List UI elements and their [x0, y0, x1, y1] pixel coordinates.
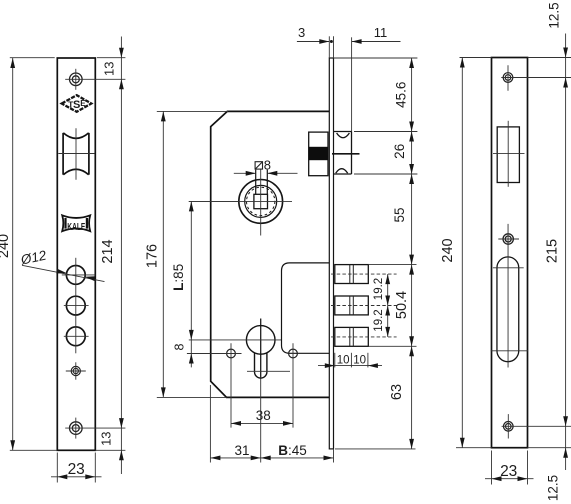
svg-text:38: 38 [256, 408, 271, 423]
follower centerlines [189, 169, 292, 463]
top screw hole [70, 73, 83, 86]
svg-text:240: 240 [440, 238, 456, 262]
svg-text:8: 8 [264, 157, 271, 172]
strike middle screw hole [503, 234, 513, 244]
svg-text:23: 23 [500, 463, 517, 480]
left body screw hole [227, 349, 236, 358]
mid screw hole [71, 366, 80, 375]
svg-text:19.2: 19.2 [373, 309, 385, 331]
svg-text:31: 31 [234, 443, 249, 458]
dimension 3 (faceplate thickness) [297, 36, 334, 58]
mid screw hole crosshair [66, 362, 86, 379]
follower shaft guide lines [256, 170, 268, 195]
dimension 8 [189, 354, 194, 364]
strike plate outline [492, 58, 528, 448]
cylinder horizontal centerline [189, 339, 282, 341]
svg-text:176: 176 [145, 244, 161, 268]
svg-text:3: 3 [298, 25, 305, 40]
bottom screw hole crosshair + ext [65, 418, 125, 439]
svg-text:240: 240 [0, 234, 12, 258]
internal line below cylinder [247, 370, 290, 372]
dimension 240 (left plate) [10, 58, 58, 451]
deadbolt slot (stadium) [497, 257, 519, 362]
svg-text:23: 23 [68, 461, 85, 478]
svg-text:45.6: 45.6 [394, 82, 409, 108]
pin internal verticals [350, 265, 354, 347]
svg-text:26: 26 [392, 144, 407, 159]
square-8 label [255, 157, 271, 172]
dimension 23 (left plate) [51, 453, 102, 483]
latch black band [309, 147, 328, 160]
right dimension chain extension lines [334, 58, 418, 449]
svg-text:13: 13 [101, 62, 116, 76]
strike screw bottom crosshair + ext [502, 414, 571, 438]
pin centerlines [331, 274, 397, 337]
svg-text:12.5: 12.5 [547, 2, 562, 28]
svg-text:10: 10 [353, 355, 366, 367]
dimension 11 (latch projection) [352, 37, 401, 131]
strike middle screw crosshair [498, 238, 519, 240]
deadbolt pin 3 [335, 327, 369, 346]
svg-text:12.5: 12.5 [546, 475, 561, 501]
latch window [497, 127, 519, 183]
dimension 19.2 chain [387, 274, 389, 337]
dimension 31 / B:45 [210, 385, 333, 463]
dimension L:85 [189, 201, 239, 367]
svg-text:B:45: B:45 [278, 443, 307, 458]
svg-text:8: 8 [173, 343, 187, 350]
Ø12 leader line [22, 265, 105, 281]
dimension 240 (strike plate) [456, 58, 492, 448]
svg-text:55: 55 [392, 207, 407, 222]
top screw hole crosshair + 13 extension line [65, 69, 125, 90]
latch internal block [309, 132, 328, 176]
follower hub circles [239, 180, 283, 224]
left faceplate outline [57, 58, 95, 450]
svg-text:214: 214 [100, 239, 116, 263]
svg-text:11: 11 [374, 25, 388, 40]
latch head [334, 132, 352, 175]
bottom screw hole [70, 422, 83, 435]
square-8 dimension arrows [234, 172, 298, 174]
right dimension chain line [411, 58, 413, 449]
slot centerlines [491, 224, 528, 368]
svg-text:Ø12: Ø12 [19, 248, 49, 268]
svg-text:L:85: L:85 [171, 264, 186, 291]
strike screw top crosshair + ext [501, 65, 571, 90]
svg-text:KALE: KALE [67, 221, 85, 233]
dimension 215 / 12.5 line [528, 34, 571, 471]
svg-text:215: 215 [545, 239, 561, 263]
deadbolt pin 1 [335, 265, 369, 284]
svg-text:13: 13 [99, 431, 114, 445]
right body screw crosshair/extension [292, 343, 294, 427]
dimension 13 top (left plate) [97, 37, 126, 475]
roller centerlines [58, 128, 95, 179]
chain arrows [409, 58, 414, 68]
roller bolt (spool shape) [63, 133, 89, 175]
dimension 214 (left plate) [119, 418, 124, 428]
dimension 10 10 [318, 353, 382, 368]
KALE logo [62, 215, 90, 233]
latch window centerline [493, 121, 525, 187]
TSE diamond logo [62, 95, 92, 112]
latch centerline [332, 153, 360, 155]
faceplate strip (3mm edge) [329, 58, 333, 449]
follower square hole [254, 194, 268, 208]
deadbolt pin 2 [335, 296, 369, 315]
Ø12 leader arrows [56, 269, 67, 276]
svg-text:19.2: 19.2 [373, 278, 385, 300]
svg-text:50.4: 50.4 [394, 291, 410, 319]
svg-text:10: 10 [337, 355, 350, 367]
svg-text:E: E [80, 99, 86, 108]
dimension 23 (strike plate) [485, 451, 534, 485]
left body screw crosshair + 8/38 extensions [187, 343, 242, 427]
Ø12 holes centerlines [62, 258, 96, 354]
lock body outline with chamfers [211, 111, 330, 397]
three Ø12 holes [66, 266, 85, 346]
euro cylinder hole [246, 326, 275, 379]
strike screw hole bottom [504, 422, 514, 432]
strike screw hole top [503, 73, 513, 83]
deadbolt box inside body [282, 263, 330, 353]
dimension 13 bottom (left plate) [95, 449, 125, 451]
right body screw hole [289, 349, 298, 358]
dimension 38 [231, 422, 293, 424]
dimension 176 [157, 111, 228, 397]
svg-text:63: 63 [389, 384, 405, 400]
